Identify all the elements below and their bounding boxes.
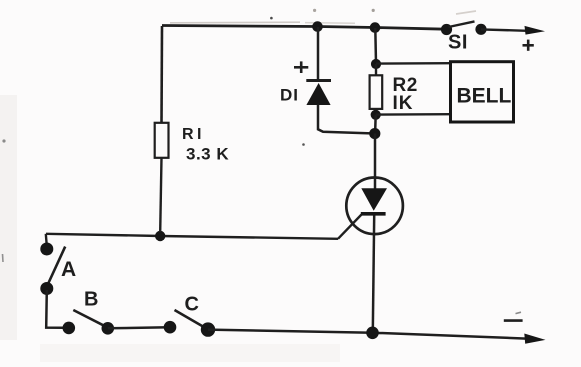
- svg-text:3.3 K: 3.3 K: [186, 144, 229, 163]
- arrowhead: − supply terminal: [524, 334, 545, 344]
- wire: gate rail: [46, 234, 338, 239]
- label: + (D1 polarity): [294, 61, 308, 73]
- bell: [451, 62, 514, 122]
- svg-text:A: A: [61, 258, 76, 281]
- svg-text:SI: SI: [448, 32, 468, 54]
- wire: bottom negative rail: [208, 330, 527, 339]
- wire: switch A to bottom rail: [46, 290, 63, 328]
- wire: junction to BELL bottom: [376, 113, 451, 116]
- svg-text:C: C: [185, 294, 199, 316]
- wire: D1 branch from top rail: [317, 27, 320, 80]
- svg-text:B: B: [84, 289, 98, 311]
- SCR Q1: [338, 178, 403, 239]
- node: D1 / R2 / SCR anode junction: [369, 128, 380, 139]
- switch C: [164, 310, 216, 337]
- resistor R2: [370, 64, 383, 115]
- wire: SCR anode lead: [374, 134, 377, 189]
- wire: S1 to + terminal arrow: [481, 29, 527, 30]
- node: R2 bottom junction: [371, 110, 381, 120]
- node: SCR cathode / bottom rail junction: [366, 327, 379, 340]
- node: gate rail / R1 junction: [155, 231, 165, 241]
- wire: switch B to switch C: [108, 327, 170, 328]
- svg-text:DI: DI: [280, 86, 299, 105]
- wire: R2 junction down to common node: [374, 115, 377, 134]
- node: top rail / R2 branch junction: [370, 22, 381, 33]
- switch A: [40, 234, 65, 295]
- label: − (supply polarity): [504, 312, 523, 320]
- diode D1: [306, 81, 331, 106]
- wire: junction to BELL top: [376, 62, 451, 65]
- wire: D1 to junction node: [318, 105, 371, 134]
- svg-text:IK: IK: [393, 93, 414, 114]
- svg-text:RI: RI: [182, 126, 205, 143]
- svg-text:BELL: BELL: [457, 84, 512, 107]
- wire: R1 bottom lead: [160, 158, 161, 232]
- wire: SCR cathode lead: [373, 216, 374, 333]
- resistor R1: [155, 123, 169, 158]
- switch S1: [441, 21, 487, 35]
- switch B: [63, 310, 115, 335]
- node: R2 top junction: [371, 59, 381, 69]
- wire: R1 branch vertical: [160, 26, 163, 123]
- node: top rail / D1 branch junction: [312, 21, 323, 32]
- wire: R2 branch from top rail: [374, 28, 377, 64]
- arrowhead: + supply terminal: [525, 26, 546, 35]
- label: + (supply polarity): [523, 40, 534, 51]
- wire: top positive rail: [162, 26, 446, 30]
